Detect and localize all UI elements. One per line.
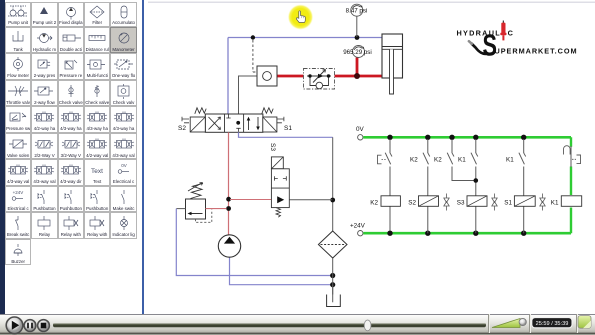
svg-text:K2: K2 <box>370 199 378 206</box>
svg-text:+24V: +24V <box>350 223 366 230</box>
svg-text:S: S <box>482 28 496 63</box>
svg-text:8.47 psi: 8.47 psi <box>346 8 368 15</box>
svg-text:25:59 / 35:39: 25:59 / 35:39 <box>536 321 569 327</box>
svg-text:C: C <box>508 29 514 38</box>
svg-text:965.29 psi: 965.29 psi <box>343 49 372 56</box>
svg-text:S1: S1 <box>284 125 292 132</box>
svg-text:K1: K1 <box>458 157 466 164</box>
svg-text:K2: K2 <box>434 157 442 164</box>
svg-text:S3: S3 <box>457 199 465 206</box>
svg-text:UPERMARKET.COM: UPERMARKET.COM <box>495 47 578 56</box>
svg-text:S2: S2 <box>178 125 186 132</box>
svg-text:K1: K1 <box>551 199 559 206</box>
svg-text:0V: 0V <box>356 126 365 133</box>
svg-text:S1: S1 <box>504 199 512 206</box>
svg-text:S3: S3 <box>269 143 276 151</box>
svg-text:K1: K1 <box>506 157 514 164</box>
svg-text:K2: K2 <box>410 157 418 164</box>
svg-text:S2: S2 <box>408 199 416 206</box>
